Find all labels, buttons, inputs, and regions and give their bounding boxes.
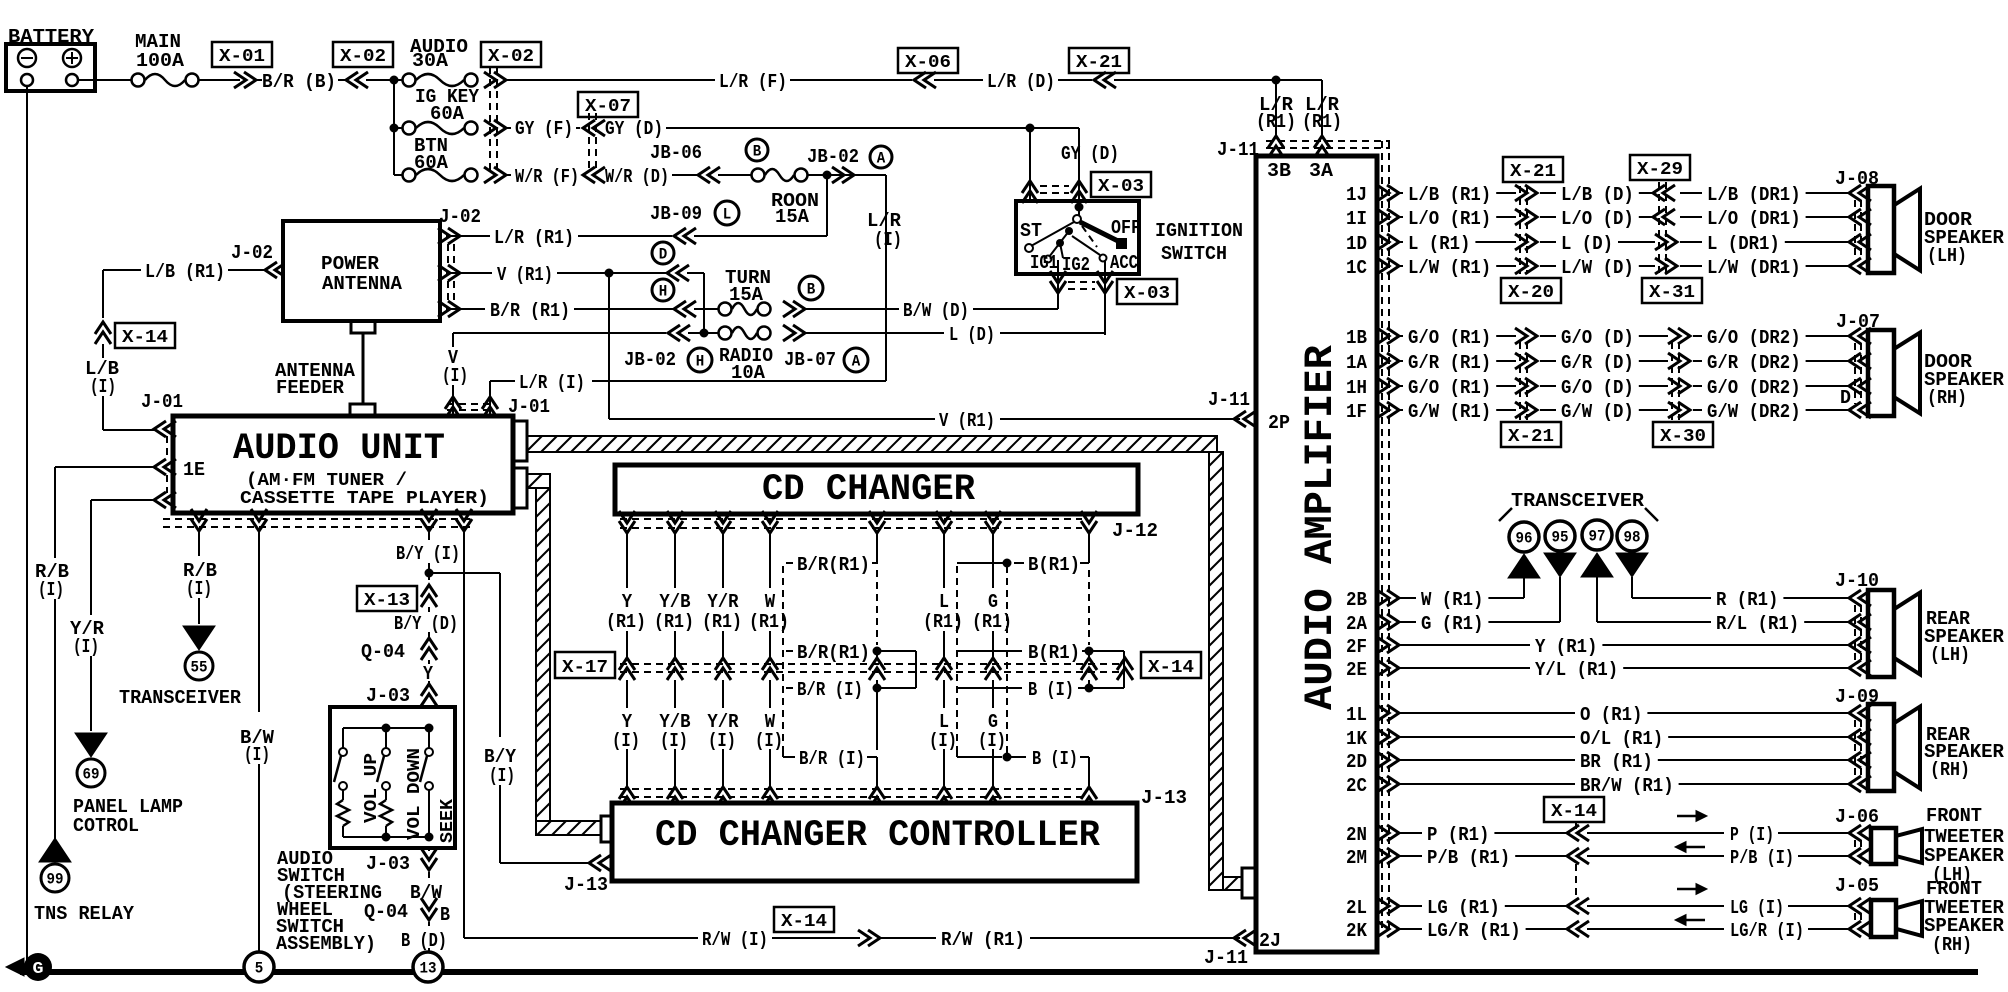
svg-text:J-03: J-03 [366, 853, 410, 875]
svg-text:(I): (I) [489, 765, 515, 787]
svg-text:1H: 1H [1346, 377, 1367, 399]
wire G/W (DR2) row [1693, 409, 1702, 411]
wire audio switch output B/W [428, 848, 430, 851]
svg-text:L/R (D): L/R (D) [987, 71, 1055, 93]
svg-text:IGNITION: IGNITION [1155, 220, 1243, 242]
component AUDIO SWITCH (steering wheel switch assembly) [330, 707, 455, 848]
connector J-08 chevron L/W [1849, 258, 1871, 274]
connector J-10 chevron 2E [1849, 660, 1871, 676]
svg-text:G/W (DR2): G/W (DR2) [1707, 401, 1801, 423]
junction node B/Y [425, 569, 434, 578]
wire G/R (R1) row [1400, 360, 1403, 362]
connector J-07 chevron G/O [1849, 378, 1871, 394]
svg-text:X-31: X-31 [1649, 283, 1695, 303]
wire down to L/R (R1) row [826, 175, 828, 236]
connector X-17 [555, 652, 615, 678]
svg-text:(AM·FM TUNER /: (AM·FM TUNER / [246, 471, 407, 491]
svg-text:15A: 15A [775, 206, 810, 228]
wire BR/W (R1) row 2C [1400, 783, 1575, 785]
connector X-01 [212, 42, 272, 67]
svg-text:1A: 1A [1346, 352, 1368, 374]
dashed connector line X-02 [489, 67, 491, 172]
wire down into audio unit J-01 [489, 381, 491, 414]
wire P/B (R1) row 2M [1400, 855, 1422, 857]
svg-text:X-02: X-02 [340, 47, 386, 67]
svg-text:W/R (F): W/R (F) [515, 166, 579, 188]
svg-text:B/R (B): B/R (B) [262, 71, 336, 93]
audio switch internal bottom bus [343, 836, 429, 838]
svg-text:(R1): (R1) [606, 611, 646, 633]
svg-text:G/O (R1): G/O (R1) [1408, 327, 1491, 349]
wire G/W (D) row [1540, 409, 1556, 411]
component CD CHANGER [615, 465, 1138, 514]
svg-text:L/O (R1): L/O (R1) [1408, 208, 1491, 230]
loop wire right of B/R node [877, 650, 916, 652]
vertical line from fuse feed node down [393, 80, 395, 175]
wire L/R (R1) row power antenna to JB-09 [446, 235, 490, 237]
svg-text:(I): (I) [978, 730, 1006, 752]
svg-text:(RH): (RH) [1932, 934, 1972, 956]
component AUDIO AMPLIFIER [1256, 156, 1377, 952]
wire V (R1) row from power antenna [446, 272, 492, 274]
connector X-14 [95, 322, 111, 344]
svg-text:2L: 2L [1346, 897, 1367, 919]
svg-text:J-05: J-05 [1835, 875, 1879, 897]
svg-text:X-01: X-01 [219, 47, 265, 67]
svg-text:(RH): (RH) [1927, 387, 1967, 409]
wire G/R (DR2) row [1693, 360, 1702, 362]
svg-text:(I): (I) [244, 744, 270, 766]
svg-text:G/O (D): G/O (D) [1561, 377, 1634, 399]
svg-text:O (R1): O (R1) [1580, 704, 1642, 726]
svg-text:J-13: J-13 [564, 874, 608, 896]
svg-text:(RH): (RH) [1930, 759, 1970, 781]
svg-text:O/L (R1): O/L (R1) [1580, 728, 1663, 750]
ignition switch outputs [1057, 260, 1059, 309]
svg-text:CASSETTE TAPE PLAYER): CASSETTE TAPE PLAYER) [240, 489, 489, 509]
svg-text:3B: 3B [1267, 160, 1291, 182]
wire G/O (D) row [1540, 385, 1556, 387]
svg-text:L/B (D): L/B (D) [1561, 184, 1634, 206]
connector J-07 chevron G/R [1849, 353, 1871, 369]
svg-text:B/Y (D): B/Y (D) [394, 613, 458, 635]
svg-text:W/R (D): W/R (D) [605, 166, 669, 188]
wire Y/L (R1) row 2E [1400, 667, 1530, 669]
svg-text:X-14: X-14 [781, 912, 827, 932]
wire RADIO fuse feed row / V (I) branch [453, 332, 666, 334]
svg-text:JB-02: JB-02 [807, 146, 859, 168]
wire battery negative to ground [26, 86, 28, 960]
svg-text:2P: 2P [1268, 412, 1290, 434]
svg-text:X-29: X-29 [1637, 160, 1683, 180]
svg-text:L/B (DR1): L/B (DR1) [1707, 184, 1801, 206]
transceiver pin 98 [1617, 521, 1647, 551]
wire B/R (I) label row [786, 687, 793, 689]
svg-text:LG/R (R1): LG/R (R1) [1427, 920, 1521, 942]
svg-text:VOL DOWN: VOL DOWN [405, 748, 425, 840]
dashed link B column companion [1088, 570, 1090, 645]
connector X-14 box right [1544, 797, 1604, 822]
svg-text:Y: Y [622, 591, 633, 613]
wire L/B (DR1) row [1680, 192, 1702, 194]
junction node after ROON fuse [808, 174, 886, 176]
svg-text:B/R(R1): B/R(R1) [797, 554, 870, 576]
svg-text:X-21: X-21 [1510, 162, 1556, 182]
svg-text:1E: 1E [183, 459, 205, 481]
shielded cable right vertical run [1209, 452, 1223, 890]
wire P (R1) row 2N [1400, 832, 1422, 834]
connector X-21/X-20 chevron L/W [1515, 258, 1537, 274]
svg-text:2B: 2B [1346, 589, 1367, 611]
connector J-13 row chevron Y/B [667, 787, 683, 809]
wire CD changer column Y [626, 533, 628, 588]
connector X-14 mid row chevron [1117, 658, 1133, 680]
svg-text:G/O (DR2): G/O (DR2) [1707, 377, 1801, 399]
wire / label B/R (B) [256, 79, 262, 81]
wire L/B (R1) row [1400, 192, 1403, 194]
ground bus line [20, 969, 1978, 975]
connector X-13 [357, 586, 417, 611]
wire L/B (D) row [1540, 192, 1556, 194]
wire L/R (I) vertical from ROON output [885, 175, 887, 381]
svg-text:J-06: J-06 [1835, 806, 1879, 828]
connector J-10 chevron 2F [1849, 637, 1871, 653]
svg-text:J-13: J-13 [1141, 787, 1187, 809]
svg-text:ASSEMBLY): ASSEMBLY) [276, 933, 376, 955]
svg-text:G/R (D): G/R (D) [1561, 352, 1634, 374]
wire battery to MAIN fuse [78, 79, 131, 81]
connector (B) [799, 276, 823, 300]
connector X-17 row chevron L [936, 658, 952, 680]
dashed connector columns door RH [1519, 342, 1521, 420]
svg-text:3A: 3A [1309, 160, 1334, 182]
svg-text:Y/B: Y/B [659, 591, 690, 613]
connector J-10 chevron 2A [1849, 614, 1871, 630]
svg-text:L: L [723, 206, 732, 224]
svg-text:B: B [807, 281, 816, 299]
svg-text:69: 69 [83, 766, 100, 784]
svg-text:R (R1): R (R1) [1716, 589, 1778, 611]
connector X-30 chevron G/O [1668, 378, 1690, 394]
svg-text:(LH): (LH) [1927, 245, 1967, 267]
speaker DOOR SPEAKER (LH) [1868, 186, 1894, 273]
wire CD changer column L [943, 533, 945, 588]
audio switch internal top bus [343, 727, 429, 729]
wire R/B (I) to transceiver [198, 531, 200, 556]
connector J-09 chevron 1L [1849, 705, 1871, 721]
switch VOL DOWN [382, 748, 390, 756]
wire B/R(R1) top label row [872, 533, 877, 563]
svg-text:IG1: IG1 [1030, 252, 1058, 274]
connector 99 arrow (to TNS RELAY) [39, 838, 71, 862]
ignition switch box (IGNITION SWITCH) [1016, 201, 1139, 274]
dashed J-13 row lines [620, 788, 1082, 790]
svg-text:G: G [33, 960, 44, 979]
wire B/Y (I) from audio unit [428, 531, 430, 540]
connector J-09 chevron 1K [1849, 729, 1871, 745]
svg-text:L (D): L (D) [1561, 233, 1613, 255]
svg-text:1B: 1B [1346, 327, 1367, 349]
connector J-08 chevron L/B [1849, 185, 1871, 201]
svg-text:V (R1): V (R1) [939, 410, 995, 432]
svg-text:VOL UP: VOL UP [362, 753, 382, 823]
wire corner ACC to L (D) [1104, 333, 1106, 335]
svg-text:Q-04: Q-04 [361, 641, 405, 663]
wire L (DR1) row [1680, 241, 1702, 243]
direction arrow right (P) [1677, 815, 1699, 818]
connector X-21 box [1503, 157, 1563, 182]
svg-text:G/R (DR2): G/R (DR2) [1707, 352, 1801, 374]
svg-text:LG/R (I): LG/R (I) [1730, 920, 1804, 942]
junction node RADIO feed [700, 329, 709, 338]
connector J-13 row chevron B/R [869, 787, 885, 809]
svg-text:G/O (R1): G/O (R1) [1408, 377, 1491, 399]
dashed X-17 row lines [620, 663, 1120, 665]
svg-text:B/R (I): B/R (I) [797, 679, 863, 701]
wire L/R (F) to X-06 [506, 79, 715, 81]
svg-text:(I): (I) [186, 578, 212, 600]
connector X-30 chevron G/R [1668, 353, 1690, 369]
svg-text:D: D [1840, 387, 1851, 409]
wire L/R (I) horizontal to J-01 [592, 380, 886, 382]
svg-text:P/B (I): P/B (I) [1730, 847, 1794, 869]
speaker REAR SPEAKER (LH) [1868, 590, 1894, 677]
wire V (R1) bottom run to amplifier [609, 418, 935, 420]
svg-text:L: L [939, 591, 949, 613]
direction arrow right (LG) [1677, 888, 1699, 891]
connector X-29/X-31 chevron L [1655, 234, 1677, 250]
connector X-02 (engine room side) [481, 42, 541, 67]
wire to panel lamp control (Y/R (I)) [91, 499, 155, 501]
connector X-30 chevron G/O [1668, 328, 1690, 344]
vertical feed wire x1276 [1275, 80, 1277, 137]
wire L/O (D) row [1540, 216, 1556, 218]
svg-text:J-11: J-11 [1208, 389, 1250, 411]
connector X-29/X-31 chevron L/W [1655, 258, 1677, 274]
svg-text:B/R (R1): B/R (R1) [490, 300, 570, 322]
svg-text:X-03: X-03 [1124, 284, 1170, 304]
wire O (R1) row 1L [1400, 712, 1575, 714]
svg-text:B/R(R1): B/R(R1) [797, 642, 870, 664]
connector X-07 [578, 92, 638, 117]
connector X-17 row chevron Y/B [667, 658, 683, 680]
connector X-17 row chevron Y/R [715, 658, 731, 680]
svg-text:BR (R1): BR (R1) [1580, 751, 1653, 773]
svg-text:(I): (I) [929, 730, 957, 752]
svg-text:L/O (D): L/O (D) [1561, 208, 1634, 230]
junction node V(R1) [605, 269, 614, 278]
shielded cable right bottom stub [1223, 877, 1242, 890]
wire L/O (DR1) row [1680, 216, 1702, 218]
svg-text:B(R1): B(R1) [1028, 554, 1080, 576]
svg-text:2J: 2J [1259, 930, 1281, 952]
wire Y (R1) row 2F [1400, 644, 1530, 646]
wire G/O (DR2) row [1693, 335, 1702, 337]
wire LG/R (I) row 2K right [1587, 928, 1724, 930]
wire to AUDIO 30A fuse [394, 79, 402, 81]
connector J-01 dashes [447, 403, 494, 405]
svg-text:2N: 2N [1346, 824, 1367, 846]
antenna feeder [351, 321, 375, 333]
connector J-06 chevron 2M [1849, 848, 1871, 864]
svg-text:10A: 10A [731, 362, 766, 384]
svg-text:5: 5 [255, 960, 264, 978]
connector X-30 box [1653, 422, 1713, 447]
audio unit right connector tabs [513, 421, 527, 461]
svg-text:G (R1): G (R1) [1421, 613, 1483, 635]
junction node IG KEY feed [390, 124, 399, 133]
svg-text:B/Y (I): B/Y (I) [396, 543, 460, 565]
svg-text:1D: 1D [1346, 233, 1367, 255]
svg-text:X-14: X-14 [122, 328, 168, 348]
svg-text:2K: 2K [1346, 920, 1368, 942]
wire R (R1) row 2B right [1632, 597, 1711, 599]
connector X-21 [1069, 48, 1129, 73]
connector J-13 row chevron Y [619, 787, 635, 809]
svg-text:J-11: J-11 [1204, 947, 1248, 969]
connector X-21/X-20 chevron L/O [1515, 209, 1537, 225]
wire LG/R (R1) row 2K [1400, 928, 1422, 930]
connector 69 arrow (to PANEL LAMP COTROL) [75, 733, 107, 757]
svg-text:(I): (I) [660, 730, 688, 752]
wire G/R (D) row [1540, 360, 1556, 362]
svg-text:AUDIO UNIT: AUDIO UNIT [233, 428, 445, 470]
svg-text:L/W (DR1): L/W (DR1) [1707, 257, 1801, 279]
speaker FRONT TWEETER SPEAKER (RH) [1871, 900, 1896, 937]
svg-text:J-11: J-11 [1217, 139, 1259, 161]
wire R/L (R1) row 2A right [1597, 621, 1711, 623]
shielded cable top run (audio unit to amplifier) [527, 436, 1217, 452]
svg-text:J-02: J-02 [231, 242, 273, 264]
svg-text:J-02: J-02 [439, 206, 481, 228]
svg-text:55: 55 [191, 659, 208, 677]
connector 55 arrow (to TRANSCEIVER) [183, 626, 215, 650]
connector X-14 chevron 2L [1567, 898, 1589, 914]
svg-text:SEEK: SEEK [438, 799, 458, 843]
junction node [1272, 76, 1281, 85]
connector X-17 row chevron Y [619, 658, 635, 680]
svg-text:(I): (I) [38, 579, 64, 601]
branch wire to J-13 [429, 572, 500, 574]
svg-text:CD CHANGER CONTROLLER: CD CHANGER CONTROLLER [655, 815, 1101, 857]
wire L/B (R1) into power antenna [103, 269, 141, 271]
component CD CHANGER CONTROLLER [612, 803, 1137, 881]
svg-text:X-13: X-13 [364, 591, 410, 611]
svg-text:GY (F): GY (F) [515, 118, 573, 140]
connector J-13 row chevron W [762, 787, 778, 809]
svg-text:(I): (I) [73, 636, 99, 658]
svg-text:G/R (R1): G/R (R1) [1408, 352, 1491, 374]
wire L (D) row [1540, 241, 1556, 243]
svg-text:1C: 1C [1346, 257, 1367, 279]
svg-text:G: G [988, 591, 998, 613]
wire to amplifier top entries [1114, 79, 1322, 81]
shielded cable tab into CD changer controller [601, 816, 613, 842]
loop wire right of B node [1089, 650, 1124, 652]
svg-text:L/B (R1): L/B (R1) [1408, 184, 1491, 206]
wire P (I) row 2N right [1587, 832, 1724, 834]
svg-text:2A: 2A [1346, 613, 1368, 635]
wire into audio unit J-01 left [103, 429, 155, 431]
svg-text:G/W (D): G/W (D) [1561, 401, 1634, 423]
dashed link L column companion [956, 566, 958, 753]
wire G/O (R1) row [1400, 385, 1403, 387]
svg-text:(I): (I) [90, 376, 116, 398]
ground symbol G [6, 958, 24, 976]
vertical feed wire x1322 [1321, 80, 1323, 137]
svg-text:R/W (R1): R/W (R1) [941, 929, 1025, 951]
svg-text:97: 97 [1589, 528, 1606, 546]
transceiver pin 95 [1545, 521, 1575, 551]
wire W (R1) row 2B [1400, 597, 1416, 599]
connector J-07 chevron G/W [1849, 402, 1871, 418]
connector J-07 chevron G/O [1849, 328, 1871, 344]
connector X-29/X-31 chevron L/O [1653, 209, 1675, 225]
svg-text:JB-09: JB-09 [650, 203, 702, 225]
wire L/B (R1) left drop to X-14 [102, 270, 104, 318]
svg-text:FEEDER: FEEDER [276, 377, 345, 399]
connector X-14 chevron 2M [1567, 848, 1589, 864]
svg-text:TRANSCEIVER: TRANSCEIVER [1511, 490, 1645, 512]
svg-text:L/W (D): L/W (D) [1561, 257, 1634, 279]
svg-text:R/L (R1): R/L (R1) [1716, 613, 1799, 635]
svg-text:H: H [659, 283, 668, 301]
dashed connector columns door LH [1519, 186, 1521, 274]
connector X-21 chevron G/W [1515, 402, 1537, 418]
connector X-31 box [1642, 278, 1702, 303]
svg-text:1K: 1K [1346, 728, 1368, 750]
svg-text:JB-06: JB-06 [650, 142, 702, 164]
audio unit left connector chevrons [154, 421, 176, 437]
wire GY (D) drop to ignition switch [1029, 128, 1031, 200]
svg-text:X-17: X-17 [562, 658, 608, 678]
connector X-14 chevron 2N [1567, 825, 1589, 841]
connector X-17 row chevron B/R [869, 658, 885, 680]
wire L/W (DR1) row [1680, 265, 1702, 267]
svg-text:J-03: J-03 [366, 685, 410, 707]
jog wire to RADIO fuse feed [687, 272, 704, 274]
connector X-29/X-31 chevron L/B [1653, 185, 1675, 201]
connector (H) octagon [652, 279, 674, 301]
svg-text:99: 99 [47, 871, 64, 889]
wire L/W (D) row [1540, 265, 1556, 267]
wire G/O (D) row [1540, 335, 1556, 337]
svg-text:96: 96 [1516, 530, 1533, 548]
wire / label GY (F) [506, 127, 511, 129]
wire / label L/R (D) [934, 79, 983, 81]
svg-text:P (R1): P (R1) [1427, 824, 1489, 846]
svg-text:G/O (D): G/O (D) [1561, 327, 1634, 349]
svg-text:(I): (I) [612, 730, 640, 752]
wire / label W/R (F) [506, 174, 511, 176]
connector J-08 chevron L/O [1849, 209, 1871, 225]
svg-text:FRONT: FRONT [1926, 805, 1982, 827]
svg-text:B (D): B (D) [401, 930, 447, 952]
svg-text:(R1): (R1) [1302, 111, 1342, 133]
svg-text:B(R1): B(R1) [1028, 642, 1080, 664]
wire MAIN fuse to X-01 [199, 79, 240, 81]
wire R/W (I) from audio unit to amplifier 2J [463, 531, 465, 938]
svg-text:POWER: POWER [321, 253, 380, 275]
svg-text:L/R (R1): L/R (R1) [494, 227, 574, 249]
svg-text:P/B (R1): P/B (R1) [1427, 847, 1510, 869]
svg-text:60A: 60A [430, 103, 465, 125]
svg-text:2E: 2E [1346, 659, 1367, 681]
connector X-06 [898, 48, 958, 73]
wire / label L (D) to ignition switch [805, 332, 944, 334]
wire / label R/W (R1) [880, 937, 936, 939]
svg-text:(I): (I) [708, 730, 736, 752]
